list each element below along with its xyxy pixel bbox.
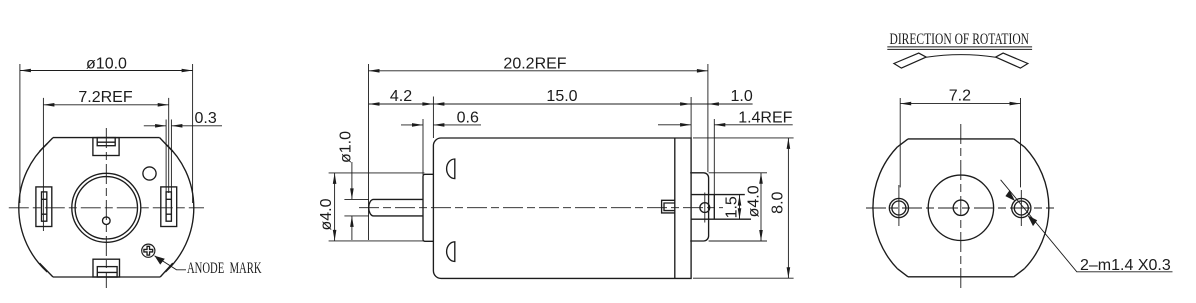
- top crimp cutout: [447, 159, 455, 179]
- svg-text:ø4.0: ø4.0: [745, 185, 762, 217]
- left screw hole outer: [889, 198, 908, 217]
- front boss circle: [928, 175, 993, 240]
- motor body side outline: [433, 138, 691, 278]
- dimension 8.0 (body height): [693, 138, 794, 278]
- rear end cap: [690, 173, 708, 241]
- right screw hole outer: [1012, 198, 1031, 217]
- dimension 20.2REF: [369, 64, 708, 240]
- svg-text:0.3: 0.3: [195, 110, 217, 127]
- dimension 15.0: [433, 103, 691, 105]
- svg-text:4.2: 4.2: [390, 88, 412, 105]
- dimension 7.2: [900, 98, 1020, 187]
- end-cap seam line: [674, 138, 676, 278]
- dimension 0.6: [401, 119, 481, 175]
- svg-text:8.0: 8.0: [769, 191, 786, 213]
- bottom tab outer: [93, 259, 120, 277]
- dimension 7.2REF: [43, 98, 168, 231]
- right view vertical centerline: [960, 124, 962, 288]
- bottom tab inner: [97, 267, 117, 277]
- left view body outline: [19, 138, 194, 277]
- middle view horizontal centerline: [359, 207, 723, 209]
- svg-text:7.2REF: 7.2REF: [78, 89, 132, 106]
- terminal hole vertical tick: [704, 193, 706, 223]
- right terminal slot ticks: [166, 199, 171, 214]
- svg-text:ø1.0: ø1.0: [337, 131, 354, 163]
- bottom tab inner line: [97, 271, 117, 273]
- dimension ø1.0 (shaft): [344, 162, 369, 240]
- right terminal inner slot: [166, 192, 171, 221]
- svg-text:1.0: 1.0: [731, 88, 753, 105]
- left terminal inner slot: [42, 192, 47, 221]
- svg-text:ANODE MARK: ANODE MARK: [187, 260, 262, 277]
- svg-text:ø4.0: ø4.0: [318, 198, 335, 230]
- top tab inner line: [97, 141, 115, 143]
- dimension ø4.0 (rear cap): [709, 173, 767, 241]
- left view vertical centerline: [105, 128, 107, 288]
- top tab inner: [97, 138, 115, 146]
- dimension 0.3: [144, 120, 222, 194]
- bottom crimp cutout: [447, 242, 455, 262]
- top tab outer: [93, 138, 119, 156]
- anode mark leader arrow: [155, 256, 187, 270]
- leader 2-m1.4x0.3: [1001, 180, 1173, 272]
- right view body outline: [873, 139, 1049, 277]
- svg-text:15.0: 15.0: [546, 88, 577, 105]
- right view horizontal centerline: [866, 207, 1054, 209]
- screw hole vertical ticks: [899, 185, 1021, 226]
- svg-text:2–m1.4 X0.3: 2–m1.4 X0.3: [1080, 257, 1171, 274]
- terminal tab tip: [713, 195, 715, 220]
- left terminal outer rectangle: [36, 187, 52, 227]
- front bearing boss: [423, 174, 433, 241]
- svg-text:0.6: 0.6: [457, 109, 479, 126]
- shaft circle: [953, 200, 968, 215]
- rear bracket notch inner: [664, 203, 675, 211]
- svg-text:1.4REF: 1.4REF: [738, 110, 792, 127]
- bearing boss inner circle: [75, 177, 137, 239]
- svg-text:20.2REF: 20.2REF: [503, 56, 566, 73]
- svg-text:DIRECTION OF ROTATION: DIRECTION OF ROTATION: [890, 31, 1030, 48]
- anode mark symbol (circle with cross): [142, 244, 155, 257]
- bearing boss outer circle: [72, 173, 141, 242]
- right screw hole inner: [1014, 201, 1028, 215]
- left view horizontal centerline: [9, 207, 204, 209]
- svg-text:ø10.0: ø10.0: [86, 56, 127, 73]
- svg-text:1.5: 1.5: [724, 196, 741, 218]
- left screw hole inner: [892, 201, 906, 215]
- terminal hole circle: [700, 203, 710, 213]
- terminal tab edge lines: [691, 195, 751, 220]
- double underline: [887, 47, 1032, 50]
- dimension 1.4REF: [658, 119, 793, 195]
- dimension 1.5 (terminal width): [739, 195, 741, 220]
- rear bracket notch outer: [662, 200, 675, 213]
- small hole below center: [103, 217, 111, 225]
- rotation arc with open arrowheads: [926, 55, 995, 58]
- small vent hole top-right: [143, 167, 156, 180]
- motor shaft: [369, 199, 423, 216]
- dimension 4.2: [432, 97, 434, 139]
- dimension 1.0: [691, 97, 753, 138]
- left terminal slot ticks: [42, 199, 47, 214]
- dimension ø10.0: [20, 64, 193, 203]
- dimension ø4.0 (front boss): [329, 173, 425, 241]
- svg-text:7.2: 7.2: [949, 88, 971, 105]
- right terminal outer rectangle: [161, 187, 177, 227]
